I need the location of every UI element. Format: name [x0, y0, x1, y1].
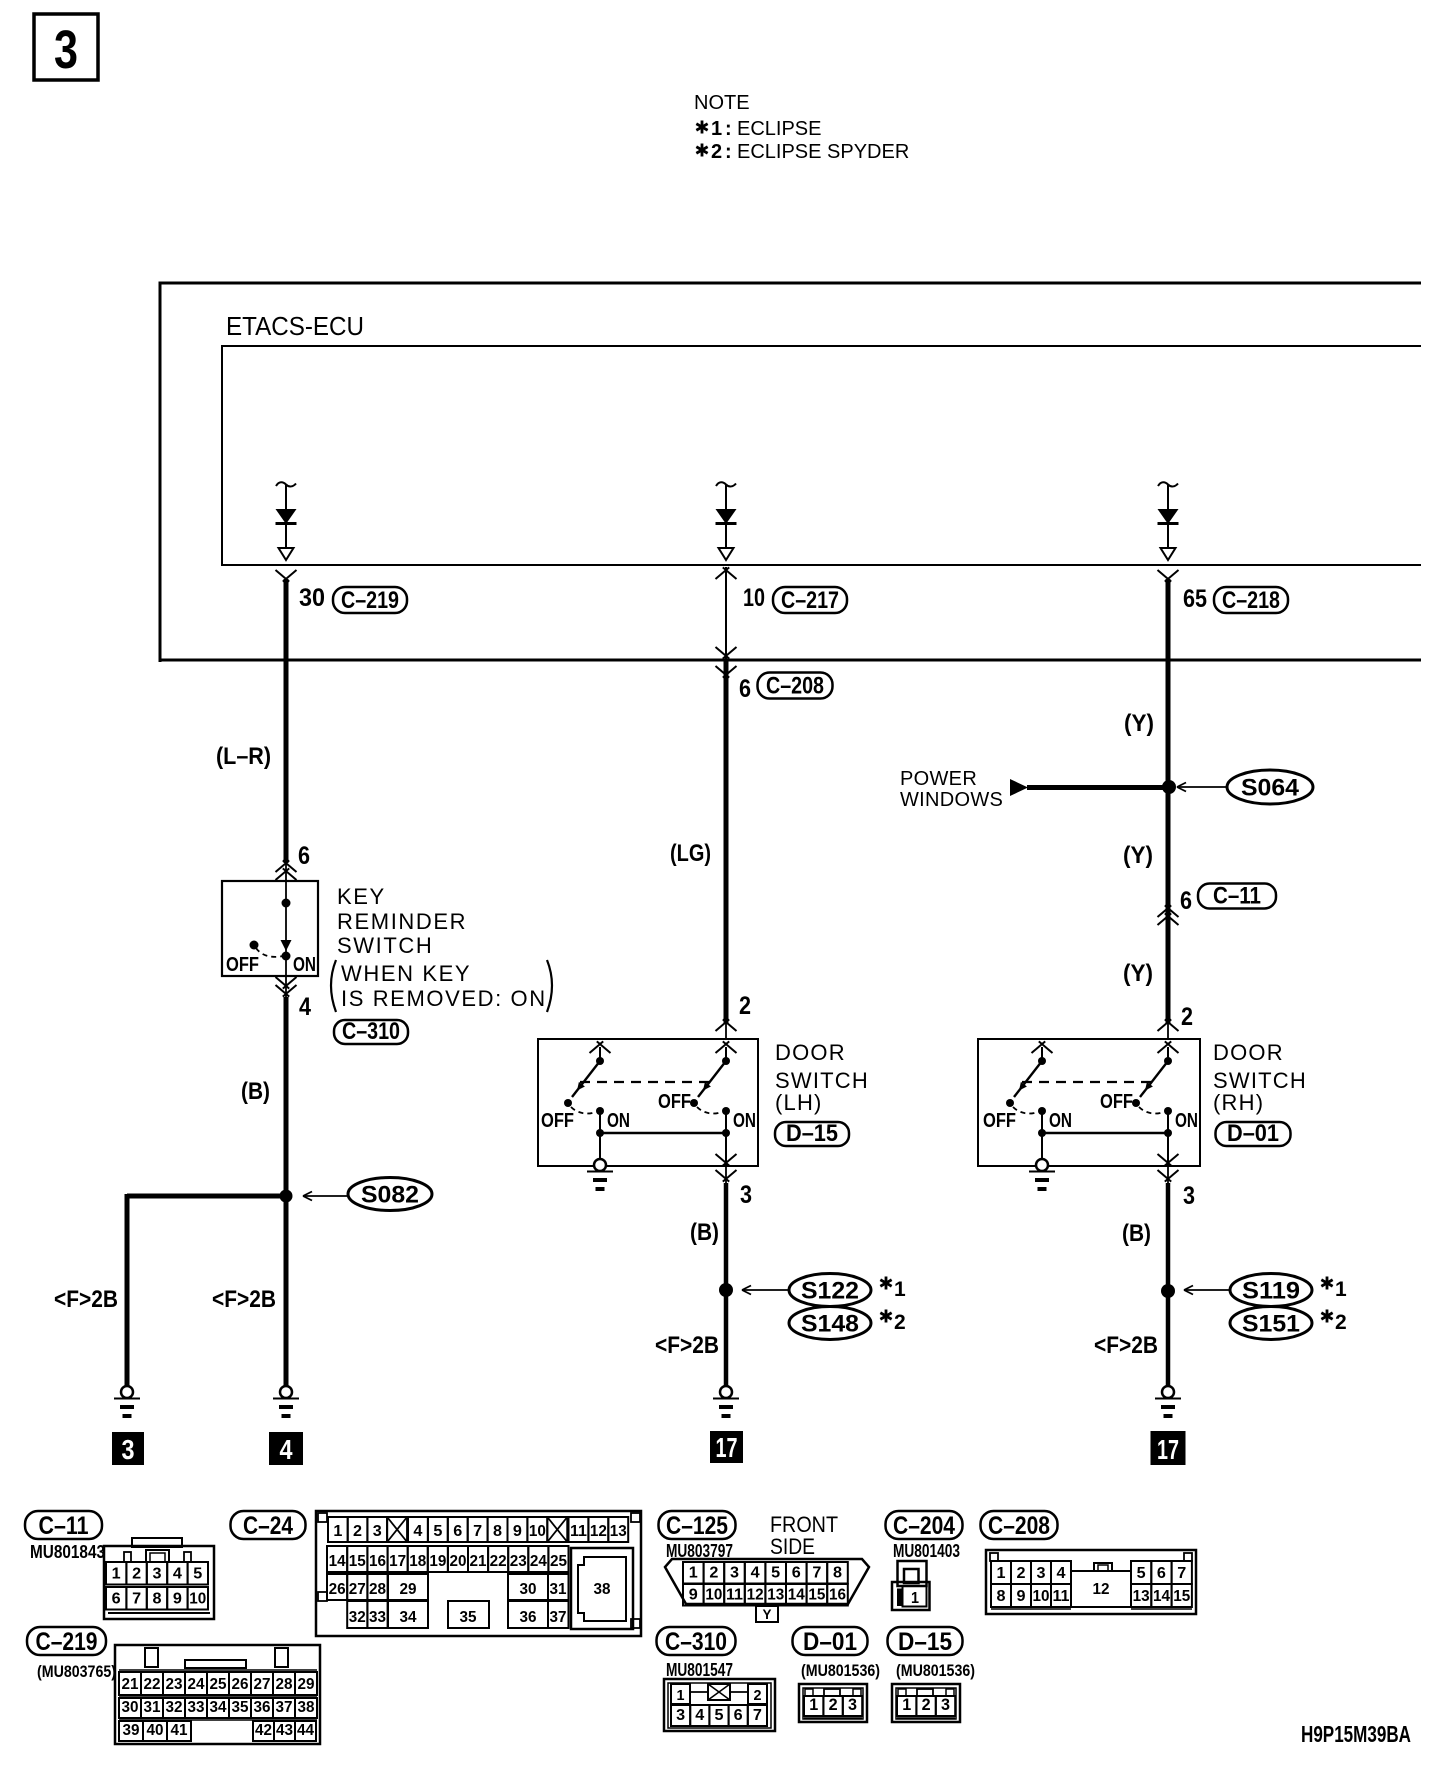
svg-text:2: 2 [1181, 1003, 1193, 1031]
door switch RH right contact wire [1167, 1047, 1169, 1058]
connector pinout C-219 [27, 1627, 320, 1744]
svg-text:9: 9 [513, 1523, 522, 1540]
svg-text:7: 7 [132, 1591, 141, 1608]
door switch RH right blade [1140, 1061, 1168, 1097]
door switch RH left blade [1014, 1061, 1042, 1097]
door switch LH left OFF label [541, 1110, 574, 1132]
svg-text:31: 31 [550, 1581, 567, 1598]
wire color label (Y) 1 [1124, 710, 1154, 737]
svg-text:(B): (B) [1122, 1220, 1151, 1247]
svg-text:8: 8 [997, 1588, 1006, 1605]
svg-text:ON: ON [1175, 1110, 1198, 1132]
svg-text:C–208: C–208 [766, 673, 824, 700]
svg-text:C–11: C–11 [39, 1512, 89, 1540]
wire color label (B) right [1122, 1220, 1151, 1247]
svg-text:10: 10 [529, 1523, 546, 1540]
svg-text:8: 8 [153, 1591, 162, 1608]
door switch RH box [978, 1039, 1200, 1166]
svg-text:6: 6 [298, 842, 310, 870]
svg-text:C–204: C–204 [893, 1512, 955, 1540]
svg-text:34: 34 [210, 1699, 227, 1716]
svg-text:C–218: C–218 [1222, 587, 1280, 614]
svg-text:15: 15 [1173, 1588, 1190, 1605]
svg-text:18: 18 [409, 1553, 426, 1570]
wire thin C-217 segment in ECU [725, 567, 727, 660]
svg-text:10: 10 [189, 1591, 206, 1608]
svg-text:5: 5 [1137, 1565, 1146, 1582]
splice label S151 [1230, 1307, 1312, 1340]
svg-text:22: 22 [490, 1553, 507, 1570]
svg-text:ON: ON [607, 1110, 630, 1132]
svg-text:3: 3 [941, 1695, 950, 1714]
svg-text:9: 9 [689, 1587, 698, 1604]
svg-text:13: 13 [767, 1587, 784, 1604]
svg-text:(MU803765): (MU803765) [37, 1662, 116, 1681]
svg-text:1: 1 [1335, 1278, 1347, 1301]
svg-text:MU801403: MU801403 [893, 1541, 960, 1561]
door switch RH left pivot dot [1038, 1057, 1046, 1065]
svg-text:5: 5 [193, 1566, 202, 1583]
door switch RH right OFF label [1100, 1091, 1133, 1113]
svg-text:2: 2 [1335, 1311, 1347, 1334]
splice note *1 (S119) [1321, 1277, 1347, 1302]
arrow to S082 [303, 1192, 347, 1201]
svg-text:1: 1 [112, 1566, 121, 1583]
svg-text:26: 26 [329, 1581, 346, 1598]
svg-text:1: 1 [677, 1687, 685, 1704]
connector pinout C-208 [981, 1511, 1197, 1614]
key reminder switch box [222, 881, 318, 976]
splice note *2 (S151) [1321, 1310, 1346, 1335]
svg-text:12: 12 [747, 1587, 764, 1604]
svg-text:1: 1 [911, 1590, 919, 1607]
svg-text:4: 4 [299, 993, 311, 1021]
pin label 30 / connector C-219 [299, 584, 407, 614]
svg-text:15: 15 [349, 1553, 366, 1570]
svg-text:17: 17 [1157, 1434, 1179, 1465]
wire label F2B mid [212, 1286, 276, 1313]
wire (B) RH to ground [1167, 1166, 1169, 1386]
diode D1 in ETACS-ECU (left) [276, 482, 297, 560]
connector pinout D-01 [793, 1627, 881, 1722]
svg-text:40: 40 [147, 1722, 164, 1739]
ETACS-ECU inner box [221, 346, 1421, 565]
svg-text:39: 39 [123, 1722, 140, 1739]
key reminder switch OFF-ON dashed link [256, 948, 283, 957]
svg-text:7: 7 [812, 1565, 821, 1582]
svg-text:<F>2B: <F>2B [655, 1332, 719, 1359]
door switch RH right dashed link [1139, 1107, 1162, 1114]
door switch LH name [775, 1040, 869, 1115]
ground ref box 17 RH [1151, 1431, 1186, 1465]
svg-text:H9P15M39BA: H9P15M39BA [1301, 1721, 1411, 1747]
door switch RH ground [1029, 1159, 1055, 1189]
ground ref box 17 LH [710, 1431, 743, 1463]
splice S082 junction dot [280, 1190, 293, 1203]
door switch RH left dashed link [1013, 1107, 1036, 1114]
connector symbol C-208 (below ECU) [716, 666, 737, 678]
wire (B) LH to ground [725, 1166, 727, 1386]
svg-text:C–219: C–219 [341, 587, 399, 614]
connector pinout C-204 [886, 1511, 963, 1610]
svg-text:1: 1 [333, 1523, 342, 1540]
svg-text:3: 3 [373, 1523, 382, 1540]
pin label 10 / connector C-217 [743, 584, 847, 614]
wire to ground 4 [284, 1196, 289, 1386]
svg-text:11: 11 [570, 1523, 587, 1540]
door switch RH link wire [1042, 1132, 1168, 1135]
svg-text:32: 32 [349, 1609, 366, 1626]
door switch RH left ON dot [1038, 1107, 1046, 1115]
svg-text:(Y): (Y) [1124, 710, 1154, 737]
splice junction dot S122/S148 [719, 1283, 733, 1297]
svg-text:12: 12 [590, 1523, 607, 1540]
svg-text:2: 2 [894, 1311, 906, 1334]
connector symbol pin 30 [276, 570, 297, 582]
splice note *2 (S148) [880, 1310, 905, 1335]
door switch RH mechanical dashed line [1022, 1081, 1152, 1083]
pin 2 label RH [1181, 1003, 1193, 1031]
svg-text::: : [725, 141, 732, 163]
svg-text:6: 6 [739, 675, 751, 703]
svg-text:30: 30 [520, 1581, 537, 1598]
svg-text:38: 38 [298, 1699, 315, 1716]
svg-text:ETACS-ECU: ETACS-ECU [226, 311, 364, 341]
svg-text:25: 25 [210, 1676, 227, 1693]
wire (B) key reminder switch to splice S082 [285, 976, 287, 1196]
svg-text:6: 6 [453, 1523, 462, 1540]
pin 6 label / connector C-11 [1180, 883, 1276, 916]
svg-text:(MU801536): (MU801536) [801, 1661, 880, 1680]
svg-text:8: 8 [493, 1523, 502, 1540]
svg-text:C–219: C–219 [36, 1628, 98, 1656]
door switch LH right wire to bottom [725, 1111, 727, 1166]
door switch LH left wire down [599, 1111, 601, 1159]
svg-text:<F>2B: <F>2B [212, 1286, 276, 1313]
svg-text:D–01: D–01 [1227, 1120, 1279, 1147]
svg-text:3: 3 [1037, 1565, 1046, 1582]
svg-text:4: 4 [1057, 1565, 1066, 1582]
svg-text:16: 16 [829, 1587, 846, 1604]
door switch RH left contact wire [1041, 1047, 1043, 1058]
svg-text:ECLIPSE SPYDER: ECLIPSE SPYDER [737, 141, 909, 163]
svg-text:(LH): (LH) [775, 1090, 823, 1115]
door switch LH left pivot dot [596, 1057, 604, 1065]
svg-text:S082: S082 [361, 1182, 419, 1209]
splice label S064 [1227, 770, 1313, 804]
svg-text:(B): (B) [241, 1078, 270, 1105]
svg-text:44: 44 [297, 1722, 314, 1739]
svg-text:ON: ON [293, 954, 316, 976]
svg-text:3: 3 [1183, 1182, 1195, 1210]
power windows branch arrow [1010, 779, 1168, 796]
svg-text:12: 12 [1093, 1581, 1110, 1598]
arrow to S122 [742, 1286, 788, 1295]
svg-text:27: 27 [254, 1676, 271, 1693]
svg-text:1: 1 [894, 1278, 906, 1301]
svg-text:D–15: D–15 [898, 1628, 952, 1656]
svg-text:14: 14 [329, 1553, 346, 1570]
svg-text:37: 37 [276, 1699, 293, 1716]
door switch LH right OFF dot [690, 1099, 698, 1107]
svg-text:(MU801536): (MU801536) [896, 1661, 975, 1680]
ground ref box 3 [112, 1432, 144, 1465]
svg-text:4: 4 [695, 1707, 704, 1724]
svg-text:30: 30 [299, 584, 325, 612]
svg-text:65: 65 [1183, 585, 1207, 613]
key reminder switch wire inside [285, 881, 287, 976]
svg-text:5: 5 [771, 1565, 780, 1582]
pin label 6 / connector C-208 [739, 673, 833, 704]
svg-text:9: 9 [173, 1591, 182, 1608]
svg-text:5: 5 [715, 1707, 724, 1724]
svg-text:33: 33 [188, 1699, 205, 1716]
svg-text:23: 23 [510, 1553, 527, 1570]
svg-text:11: 11 [726, 1587, 743, 1604]
svg-text:D–01: D–01 [803, 1628, 857, 1656]
ground (key reminder circuit) [273, 1386, 299, 1416]
connector symbol pin 65 [1158, 570, 1179, 582]
connector label D-15 [775, 1120, 849, 1147]
splice label S122 [789, 1274, 871, 1307]
svg-text:8: 8 [833, 1565, 842, 1582]
svg-text:29: 29 [298, 1676, 315, 1693]
door switch LH junction dot left [596, 1129, 604, 1137]
svg-text:6: 6 [734, 1707, 743, 1724]
svg-text:2: 2 [754, 1687, 762, 1704]
door switch LH right ON dot [722, 1107, 730, 1115]
svg-text:31: 31 [144, 1699, 161, 1716]
ETACS-ECU outer box [159, 283, 1421, 662]
svg-text:2: 2 [1017, 1565, 1026, 1582]
svg-text:3: 3 [122, 1434, 135, 1465]
door switch LH left dashed link [571, 1107, 594, 1114]
svg-text:22: 22 [144, 1676, 161, 1693]
svg-text:13: 13 [1133, 1588, 1150, 1605]
svg-text:2: 2 [132, 1566, 141, 1583]
connector symbol door switch LH pin 2 [716, 1019, 737, 1031]
splice junction dot S119/S151 [1161, 1284, 1175, 1298]
svg-text::: : [725, 118, 732, 140]
svg-text:3: 3 [848, 1695, 857, 1714]
svg-text:35: 35 [460, 1609, 477, 1626]
wire label F2B mid-col [655, 1332, 719, 1359]
splice note *1 (S122) [880, 1277, 906, 1302]
svg-text:3: 3 [740, 1181, 752, 1209]
svg-text:S119: S119 [1242, 1278, 1300, 1305]
svg-text:S064: S064 [1241, 775, 1300, 802]
svg-text:26: 26 [232, 1676, 249, 1693]
svg-text:ECLIPSE: ECLIPSE [737, 118, 821, 140]
svg-text:SWITCH: SWITCH [337, 933, 433, 958]
svg-text:1: 1 [711, 118, 722, 140]
wire (L-R) from ETACS-ECU to key reminder switch [284, 579, 289, 881]
door switch RH right OFF dot [1132, 1099, 1140, 1107]
svg-text:38: 38 [594, 1581, 611, 1598]
door switch LH right pivot dot [722, 1057, 730, 1065]
svg-text:9: 9 [1017, 1588, 1026, 1605]
connector symbol door switch RH pin 3 [1158, 1154, 1179, 1182]
pin 6 label [298, 842, 310, 870]
svg-text:7: 7 [1177, 1565, 1186, 1582]
svg-text:41: 41 [171, 1722, 188, 1739]
ground (door switch RH circuit) [1155, 1386, 1181, 1416]
svg-text:C–310: C–310 [665, 1628, 727, 1656]
svg-text:(L–R): (L–R) [216, 743, 271, 770]
connector pinout C-125 [659, 1511, 870, 1622]
door switch LH left OFF dot [564, 1099, 572, 1107]
connector pinout C-24 [231, 1511, 642, 1636]
key reminder switch name text [331, 884, 552, 1012]
svg-text:6: 6 [1180, 887, 1192, 915]
connector pinout C-11 [25, 1511, 214, 1619]
svg-text:24: 24 [188, 1676, 205, 1693]
ground (door switch LH circuit) [713, 1386, 739, 1416]
svg-text:6: 6 [1157, 1565, 1166, 1582]
svg-text:3: 3 [676, 1707, 685, 1724]
wire label F2B right-col [1094, 1332, 1158, 1359]
svg-text:28: 28 [276, 1676, 293, 1693]
connector symbol C-11 (double chevron) [1158, 905, 1179, 925]
svg-text:(Y): (Y) [1123, 960, 1153, 987]
door switch LH right dashed link [697, 1107, 720, 1114]
door switch RH right ON dot [1164, 1107, 1172, 1115]
svg-text:MU801547: MU801547 [666, 1660, 733, 1680]
svg-text:4: 4 [280, 1434, 293, 1465]
svg-text:OFF: OFF [226, 954, 259, 976]
splice label S119 [1230, 1274, 1312, 1307]
svg-text:17: 17 [716, 1432, 738, 1463]
svg-text:2: 2 [739, 992, 751, 1020]
svg-text:1: 1 [689, 1565, 698, 1582]
door switch LH right ON label [733, 1110, 756, 1132]
svg-text:OFF: OFF [983, 1110, 1016, 1132]
pin 3 label RH [1183, 1182, 1195, 1210]
svg-text:35: 35 [232, 1699, 249, 1716]
arrow to S064 [1177, 783, 1226, 792]
door switch LH left blade [572, 1061, 600, 1097]
door switch RH junction dot right [1164, 1129, 1172, 1137]
key reminder switch ON label [293, 954, 316, 976]
svg-text:10: 10 [1033, 1588, 1050, 1605]
door switch RH right wire to bottom [1167, 1111, 1169, 1166]
svg-text:28: 28 [369, 1581, 386, 1598]
door switch LH junction dot right [722, 1129, 730, 1137]
wire color label (LG) [670, 840, 711, 867]
svg-text:(Y): (Y) [1123, 842, 1153, 869]
door switch RH left chevron [1032, 1041, 1053, 1053]
svg-text:7: 7 [473, 1523, 482, 1540]
svg-text:17: 17 [389, 1553, 406, 1570]
svg-text:14: 14 [1153, 1588, 1170, 1605]
svg-text:42: 42 [255, 1722, 272, 1739]
door switch RH junction dot left [1038, 1129, 1046, 1137]
svg-text:36: 36 [254, 1699, 271, 1716]
wire (Y) from ETACS-ECU [1166, 579, 1171, 1040]
svg-text:IS REMOVED: ON: IS REMOVED: ON [341, 986, 547, 1011]
connector symbol pin 6 (double chevron) [276, 860, 297, 880]
svg-text:NOTE: NOTE [694, 92, 750, 114]
door switch LH link wire [600, 1132, 726, 1135]
wire color label (L-R) [216, 743, 271, 770]
svg-text:24: 24 [530, 1553, 547, 1570]
svg-text:OFF: OFF [541, 1110, 574, 1132]
svg-text:4: 4 [173, 1566, 182, 1583]
ground ref box 4 [269, 1432, 303, 1465]
svg-text:1: 1 [902, 1695, 911, 1714]
svg-text:33: 33 [369, 1609, 386, 1626]
door switch LH box [538, 1039, 758, 1166]
svg-text:1: 1 [997, 1565, 1006, 1582]
svg-text:5: 5 [433, 1523, 442, 1540]
svg-text:WINDOWS: WINDOWS [900, 789, 1003, 811]
svg-text:REMINDER: REMINDER [337, 909, 467, 934]
svg-text:13: 13 [610, 1523, 627, 1540]
svg-text:11: 11 [1053, 1588, 1070, 1605]
svg-text:C–208: C–208 [988, 1512, 1050, 1540]
svg-text:14: 14 [788, 1587, 805, 1604]
svg-text:21: 21 [470, 1553, 487, 1570]
door switch LH mechanical dashed line [580, 1081, 710, 1083]
door switch RH right ON label [1175, 1110, 1198, 1132]
svg-text:Y: Y [763, 1606, 773, 1622]
connector symbol door switch LH pin 3 [716, 1154, 737, 1182]
svg-text:DOOR: DOOR [1213, 1040, 1284, 1065]
connector symbol pin 10 arrows [716, 567, 737, 658]
svg-text:C–125: C–125 [666, 1512, 728, 1540]
door switch RH right pivot dot [1164, 1057, 1172, 1065]
svg-text:S151: S151 [1242, 1311, 1300, 1338]
door switch RH name [1213, 1040, 1307, 1115]
svg-text:20: 20 [449, 1553, 466, 1570]
wire color label (Y) 2 [1123, 842, 1153, 869]
svg-text:29: 29 [400, 1581, 417, 1598]
door switch LH right contact wire [725, 1047, 727, 1058]
svg-text:<F>2B: <F>2B [54, 1286, 118, 1313]
connector symbol pin 4 (double chevron) [276, 977, 297, 997]
door switch RH pin2 chevron inside [1158, 1041, 1179, 1053]
svg-text:DOOR: DOOR [775, 1040, 846, 1065]
svg-text:7: 7 [753, 1707, 762, 1724]
pin 2 label LH [739, 992, 751, 1020]
svg-text:C–24: C–24 [243, 1512, 293, 1540]
door switch LH left chevron [590, 1041, 611, 1053]
door switch RH left OFF label [983, 1110, 1016, 1132]
svg-text:KEY: KEY [337, 884, 386, 909]
power windows text [900, 768, 1003, 811]
connector label D-01 [1216, 1120, 1291, 1147]
splice label S148 [789, 1307, 871, 1340]
diagram code H9P15M39BA [1301, 1721, 1411, 1747]
splice junction dot S064 [1162, 780, 1176, 794]
svg-text:3: 3 [54, 20, 78, 80]
wire color label (Y) 3 [1123, 960, 1153, 987]
wire color label (B) mid [690, 1219, 719, 1246]
svg-text:OFF: OFF [658, 1091, 691, 1113]
diode D3 in ETACS-ECU (right) [1158, 482, 1179, 560]
svg-text:10: 10 [743, 584, 765, 612]
svg-text:MU801843: MU801843 [30, 1542, 105, 1562]
svg-text:4: 4 [413, 1523, 422, 1540]
door switch LH left contact wire [599, 1047, 601, 1058]
svg-text:(B): (B) [690, 1219, 719, 1246]
svg-text:(RH): (RH) [1213, 1090, 1264, 1115]
svg-text:2: 2 [922, 1695, 931, 1714]
svg-text:D–15: D–15 [786, 1120, 838, 1147]
svg-text:6: 6 [112, 1591, 121, 1608]
door switch LH ground [587, 1159, 613, 1189]
svg-text:C–310: C–310 [342, 1018, 400, 1045]
